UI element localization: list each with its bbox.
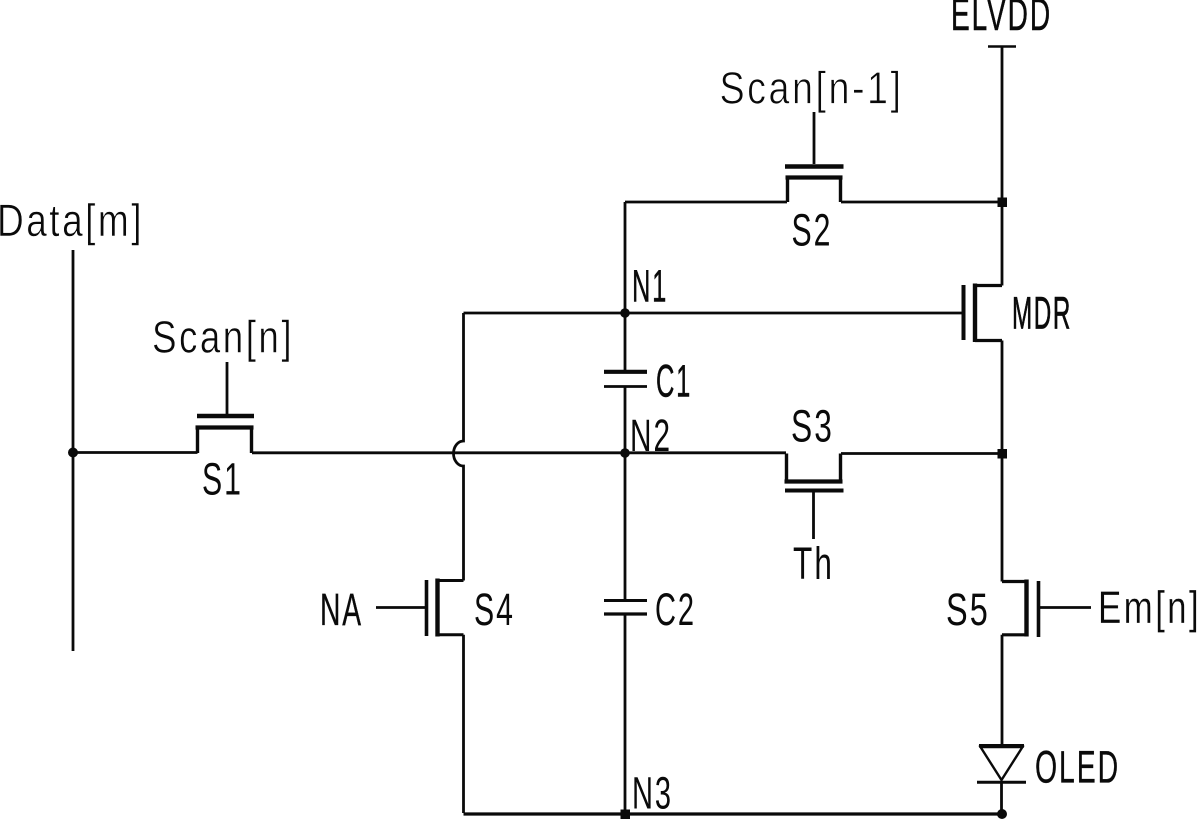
svg-text:Em[n]: Em[n] bbox=[1098, 582, 1201, 633]
svg-text:OLED: OLED bbox=[1035, 742, 1120, 793]
svg-text:ELVDD: ELVDD bbox=[951, 0, 1052, 40]
svg-text:C2: C2 bbox=[655, 584, 696, 635]
svg-text:Th: Th bbox=[793, 538, 834, 589]
svg-text:S1: S1 bbox=[202, 454, 243, 505]
svg-text:Scan[n]: Scan[n] bbox=[152, 312, 294, 363]
svg-text:NA: NA bbox=[320, 584, 363, 635]
svg-text:S3: S3 bbox=[791, 401, 834, 452]
svg-text:S5: S5 bbox=[946, 584, 990, 635]
svg-text:N2: N2 bbox=[630, 410, 672, 461]
svg-text:N3: N3 bbox=[632, 768, 673, 819]
svg-text:Scan[n-1]: Scan[n-1] bbox=[720, 63, 904, 114]
svg-text:C1: C1 bbox=[656, 356, 692, 407]
svg-text:S2: S2 bbox=[792, 205, 833, 256]
svg-text:MDR: MDR bbox=[1012, 288, 1072, 339]
svg-text:N1: N1 bbox=[632, 261, 668, 312]
svg-text:Data[m]: Data[m] bbox=[0, 195, 144, 246]
svg-text:S4: S4 bbox=[474, 584, 515, 635]
